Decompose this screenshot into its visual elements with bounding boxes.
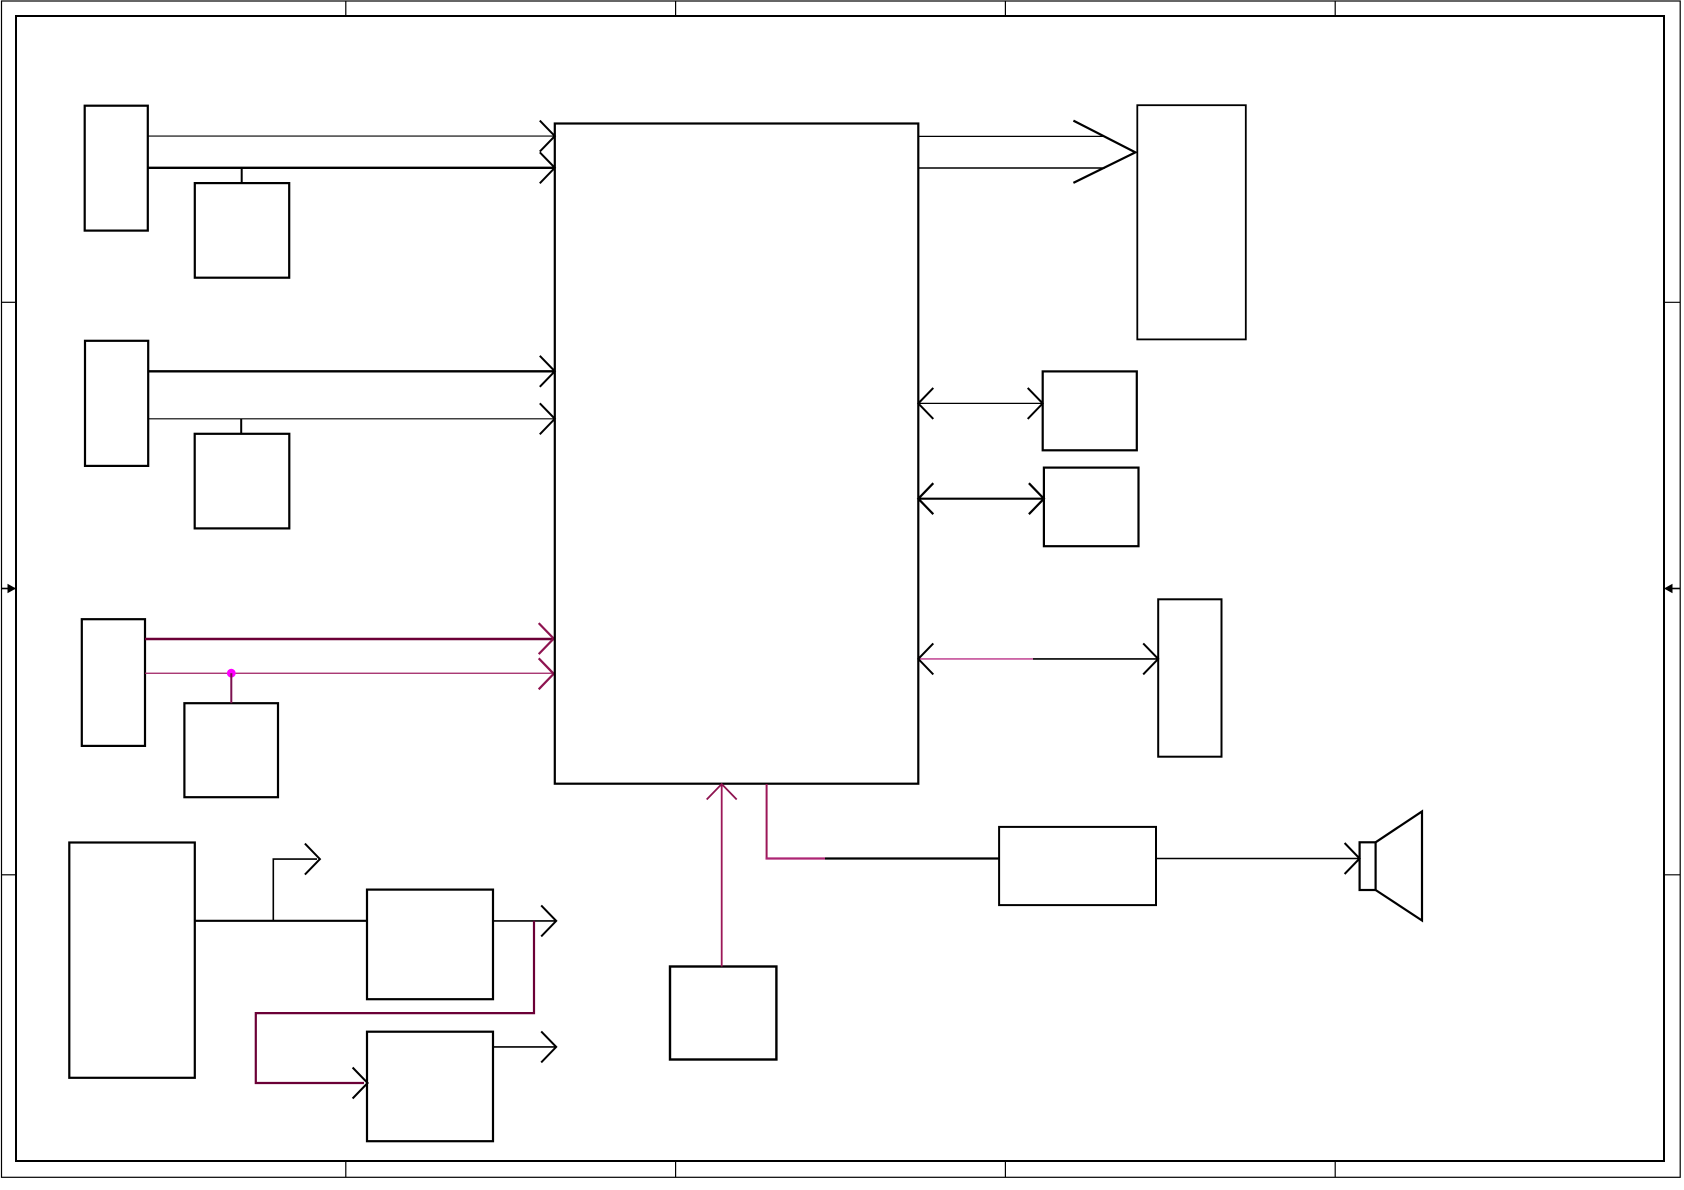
wire B2 lower to main — [148, 418, 555, 420]
block AMP amplifier — [999, 827, 1156, 905]
wire main down-right elbow (crimson) — [766, 784, 768, 859]
bus wire main to TR lower — [918, 167, 1105, 169]
arrowhead wire B3 lower — [539, 658, 554, 689]
bidirectional wire main R3 pink part — [919, 658, 1033, 660]
border centre marker left — [2, 584, 17, 594]
speaker LS1 horn — [1376, 811, 1422, 920]
block SB3 sub-box of B3 — [184, 703, 278, 797]
wire elbow horizontal pink segment — [766, 857, 826, 859]
border tick top 3 — [1004, 1, 1006, 16]
arrowhead R1 left — [918, 388, 933, 419]
arrowhead wire B2 upper — [540, 356, 555, 387]
arrowhead R3 right — [1143, 643, 1158, 674]
arrowhead R2 left — [918, 483, 933, 514]
junction dot on B3 lower wire — [227, 669, 236, 678]
wire BC up into main (crimson) — [721, 784, 723, 967]
wire B2 upper to main — [148, 370, 555, 372]
arrowhead BC up — [707, 784, 737, 800]
bidirectional wire main R2 — [918, 498, 1044, 500]
arrowhead R3 left — [918, 643, 933, 674]
border tick top 4 — [1334, 1, 1336, 16]
border centre marker right — [1664, 584, 1680, 594]
border tick bottom 1 — [345, 1161, 347, 1178]
wire B3 upper to main (maroon) — [145, 638, 554, 640]
wire B3 lower to main (pink) — [145, 672, 554, 674]
bus arrowhead into TR — [1073, 121, 1135, 183]
bidirectional wire main R1 — [918, 402, 1042, 404]
block R2 peripheral — [1044, 468, 1139, 547]
wire M1 output — [493, 920, 556, 922]
wire branch up arrow — [273, 859, 317, 921]
arrowhead wire B1 lower — [540, 152, 555, 183]
wire stub B3 to SB3 (maroon) — [230, 673, 232, 703]
block B2 mid-left source — [85, 341, 148, 466]
wire B1 lower to main — [148, 167, 555, 169]
block SB2 sub-box of B2 — [195, 434, 290, 529]
arrowhead wire B1 upper — [540, 121, 555, 152]
wire stub B2 to SB2 — [240, 419, 242, 434]
border tick bottom 2 — [675, 1161, 677, 1178]
wire maroon feedback path — [256, 921, 534, 1083]
arrowhead wire B3 upper — [539, 623, 554, 654]
border tick bottom 3 — [1004, 1161, 1006, 1178]
border tick left 2 — [2, 874, 17, 876]
block R3 peripheral tall — [1158, 599, 1221, 756]
arrowhead M2 output — [541, 1031, 556, 1062]
block M2 processing — [367, 1032, 493, 1142]
main processor block U1 — [555, 124, 919, 784]
wire BL to M1 — [195, 920, 367, 922]
block R1 peripheral — [1043, 371, 1137, 450]
speaker LS1 driver — [1360, 842, 1376, 890]
arrowhead into speaker — [1345, 843, 1360, 874]
arrowhead branch — [305, 844, 320, 875]
block TR output top-right — [1137, 105, 1246, 339]
block BL bottom-left source — [69, 843, 195, 1078]
border tick right 1 — [1664, 301, 1680, 303]
border tick top 2 — [675, 1, 677, 16]
arrowhead feedback into M2 — [353, 1068, 368, 1099]
wire B1 upper to main — [148, 135, 555, 137]
block SB1 sub-box of B1 — [195, 183, 289, 278]
border tick right 2 — [1664, 874, 1680, 876]
block BC bottom-centre source — [670, 967, 776, 1060]
block B1 top-left source — [85, 106, 148, 231]
border tick left 1 — [2, 301, 17, 303]
arrowhead R1 right — [1028, 388, 1043, 419]
wire AMP to speaker — [1156, 858, 1360, 860]
wire M2 output — [493, 1046, 556, 1048]
arrowhead M1 output — [541, 905, 556, 936]
border tick top 1 — [345, 1, 347, 16]
arrowhead wire B2 lower — [540, 403, 555, 434]
wire elbow to amplifier black segment — [825, 857, 999, 859]
border tick bottom 4 — [1334, 1161, 1336, 1178]
arrowhead R2 right — [1029, 483, 1044, 514]
block B3 lower-left source — [82, 619, 145, 746]
bidirectional wire main R3 black part — [1033, 658, 1158, 660]
bus wire main to TR upper — [918, 135, 1105, 137]
block M1 processing — [367, 890, 493, 1000]
wire stub B1 to SB1 — [241, 168, 243, 183]
